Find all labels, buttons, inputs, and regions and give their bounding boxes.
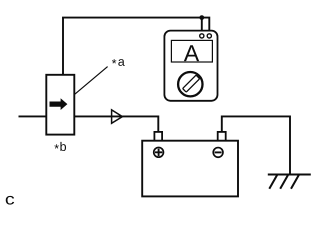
label c [6,196,14,205]
battery body [142,141,238,197]
wire main horizontal from left edge through component to battery left post [19,116,159,132]
ammeter A text [184,45,199,61]
wire top rail to ammeter right terminal [62,18,209,34]
battery left post [154,132,162,141]
ammeter display window [171,40,212,62]
ammeter knob circle [178,72,202,96]
ground symbol [268,175,311,189]
component box (sensor *a) [46,75,74,135]
label *a [112,59,125,66]
label *b [54,142,66,151]
solid arrow inside component [50,98,68,110]
ammeter knob pointer [183,75,200,92]
wire junction drop to ammeter left terminal [201,18,203,34]
ammeter terminal right [207,34,211,38]
battery plus symbol [154,147,164,157]
ammeter body U1 [164,31,217,101]
wire battery right post up and right to ground [222,116,290,174]
ammeter terminal left [200,34,204,38]
flow triangle on wire [112,110,123,123]
battery right post [218,132,226,141]
battery minus symbol [213,148,223,158]
leader line to *a [75,67,108,95]
wire vertical from component top to top rail [62,18,64,76]
junction dot [199,15,204,20]
